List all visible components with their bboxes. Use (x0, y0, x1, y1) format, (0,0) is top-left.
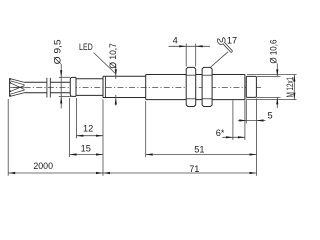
arrowheads (8, 45, 295, 174)
wrench leader (211, 52, 228, 67)
cable (25, 82, 71, 93)
dia10.6 arrows (276, 69, 278, 76)
ext line x=232.9 (6* left) (232, 100, 234, 140)
nut N1 (186, 67, 196, 106)
dim 15 line (70, 154, 103, 156)
dim15 arrows (inside) (70, 153, 77, 155)
svg-text:51: 51 (194, 145, 204, 155)
M12x1 dim line (293, 75, 295, 100)
dim line dia 10.7 (115, 64, 117, 79)
sensing tip (246, 76, 256, 97)
svg-text:Ø 10,6: Ø 10,6 (269, 40, 279, 64)
svg-text:4: 4 (173, 36, 178, 46)
wire end ticks (9, 78, 11, 97)
svg-text:LED: LED (79, 42, 93, 52)
svg-text:M 12x1: M 12x1 (285, 77, 295, 98)
dia10.7 arrows (115, 69, 117, 76)
ext line x=256.5 (tip end, shared) (256, 99, 258, 176)
svg-text:Ø 9,5: Ø 9,5 (53, 39, 63, 64)
dim 51 line (146, 154, 257, 156)
ext line x=69.6 (sleeve left) (69, 98, 71, 157)
dim51 arrows (inside) (146, 153, 153, 155)
dim 4 ext lines (185, 44, 187, 67)
svg-text:5: 5 (268, 110, 273, 120)
dim 4 line (169, 45, 211, 47)
dim 6* line (223, 136, 245, 138)
ext line x=76.4 (sleeve right) (75, 98, 77, 138)
mid body section (76, 79, 103, 96)
housing left edge + chamfer (102, 76, 104, 97)
svg-text:71: 71 (189, 164, 199, 174)
ext line x=246.3 (5 left) (245, 99, 247, 124)
housing (LED section) (103, 76, 146, 97)
dim12 arrows (inside) (76, 135, 83, 137)
barrel step (145, 75, 147, 100)
ext line x=244.9 (6* right) (244, 100, 246, 140)
svg-text:17: 17 (227, 35, 237, 45)
wire fan (stripped cable end) (10, 78, 25, 97)
dim line dia 9.5 (60, 64, 62, 109)
dim5 arrows (outside) (239, 119, 246, 121)
dim6* arrows (226, 136, 233, 138)
svg-text:15: 15 (81, 143, 91, 153)
svg-text:6*: 6* (216, 128, 225, 138)
threaded barrel (146, 75, 245, 100)
dim 71 line (103, 172, 257, 174)
dim 2000 line (8, 172, 103, 174)
barrel end face (244, 75, 246, 100)
cable break marks (47, 78, 50, 98)
wrench 17 symbol (215, 34, 236, 55)
dia 10.6 dim line (276, 64, 278, 77)
ext line x=103 (housing left, shared) (102, 100, 104, 176)
dim2000 arrows (inside) (8, 172, 15, 174)
barrel ext lines right (247, 74, 297, 76)
dia9.5 arrows (60, 70, 62, 77)
dim71 arrows (inside) (103, 172, 110, 174)
ext lines dia 9.5 (59, 76, 70, 78)
M12x1 arrows (inside) (293, 75, 295, 82)
strain relief sleeve (70, 77, 76, 96)
dim4 arrows (outside) (179, 45, 186, 47)
centerline (13, 86, 261, 88)
ext line x=145.7 (barrel start) (145, 101, 147, 157)
svg-text:2000: 2000 (33, 161, 53, 171)
ext line x=8.2 (cable tip) (7, 99, 9, 176)
LED leader (94, 53, 116, 74)
dim 12 line (76, 135, 103, 137)
dim 5 line (238, 120, 266, 122)
svg-text:12: 12 (83, 123, 93, 133)
nut N2 (202, 67, 212, 106)
svg-text:Ø 10,7: Ø 10,7 (108, 43, 118, 69)
tip ext lines right (257, 75, 281, 77)
